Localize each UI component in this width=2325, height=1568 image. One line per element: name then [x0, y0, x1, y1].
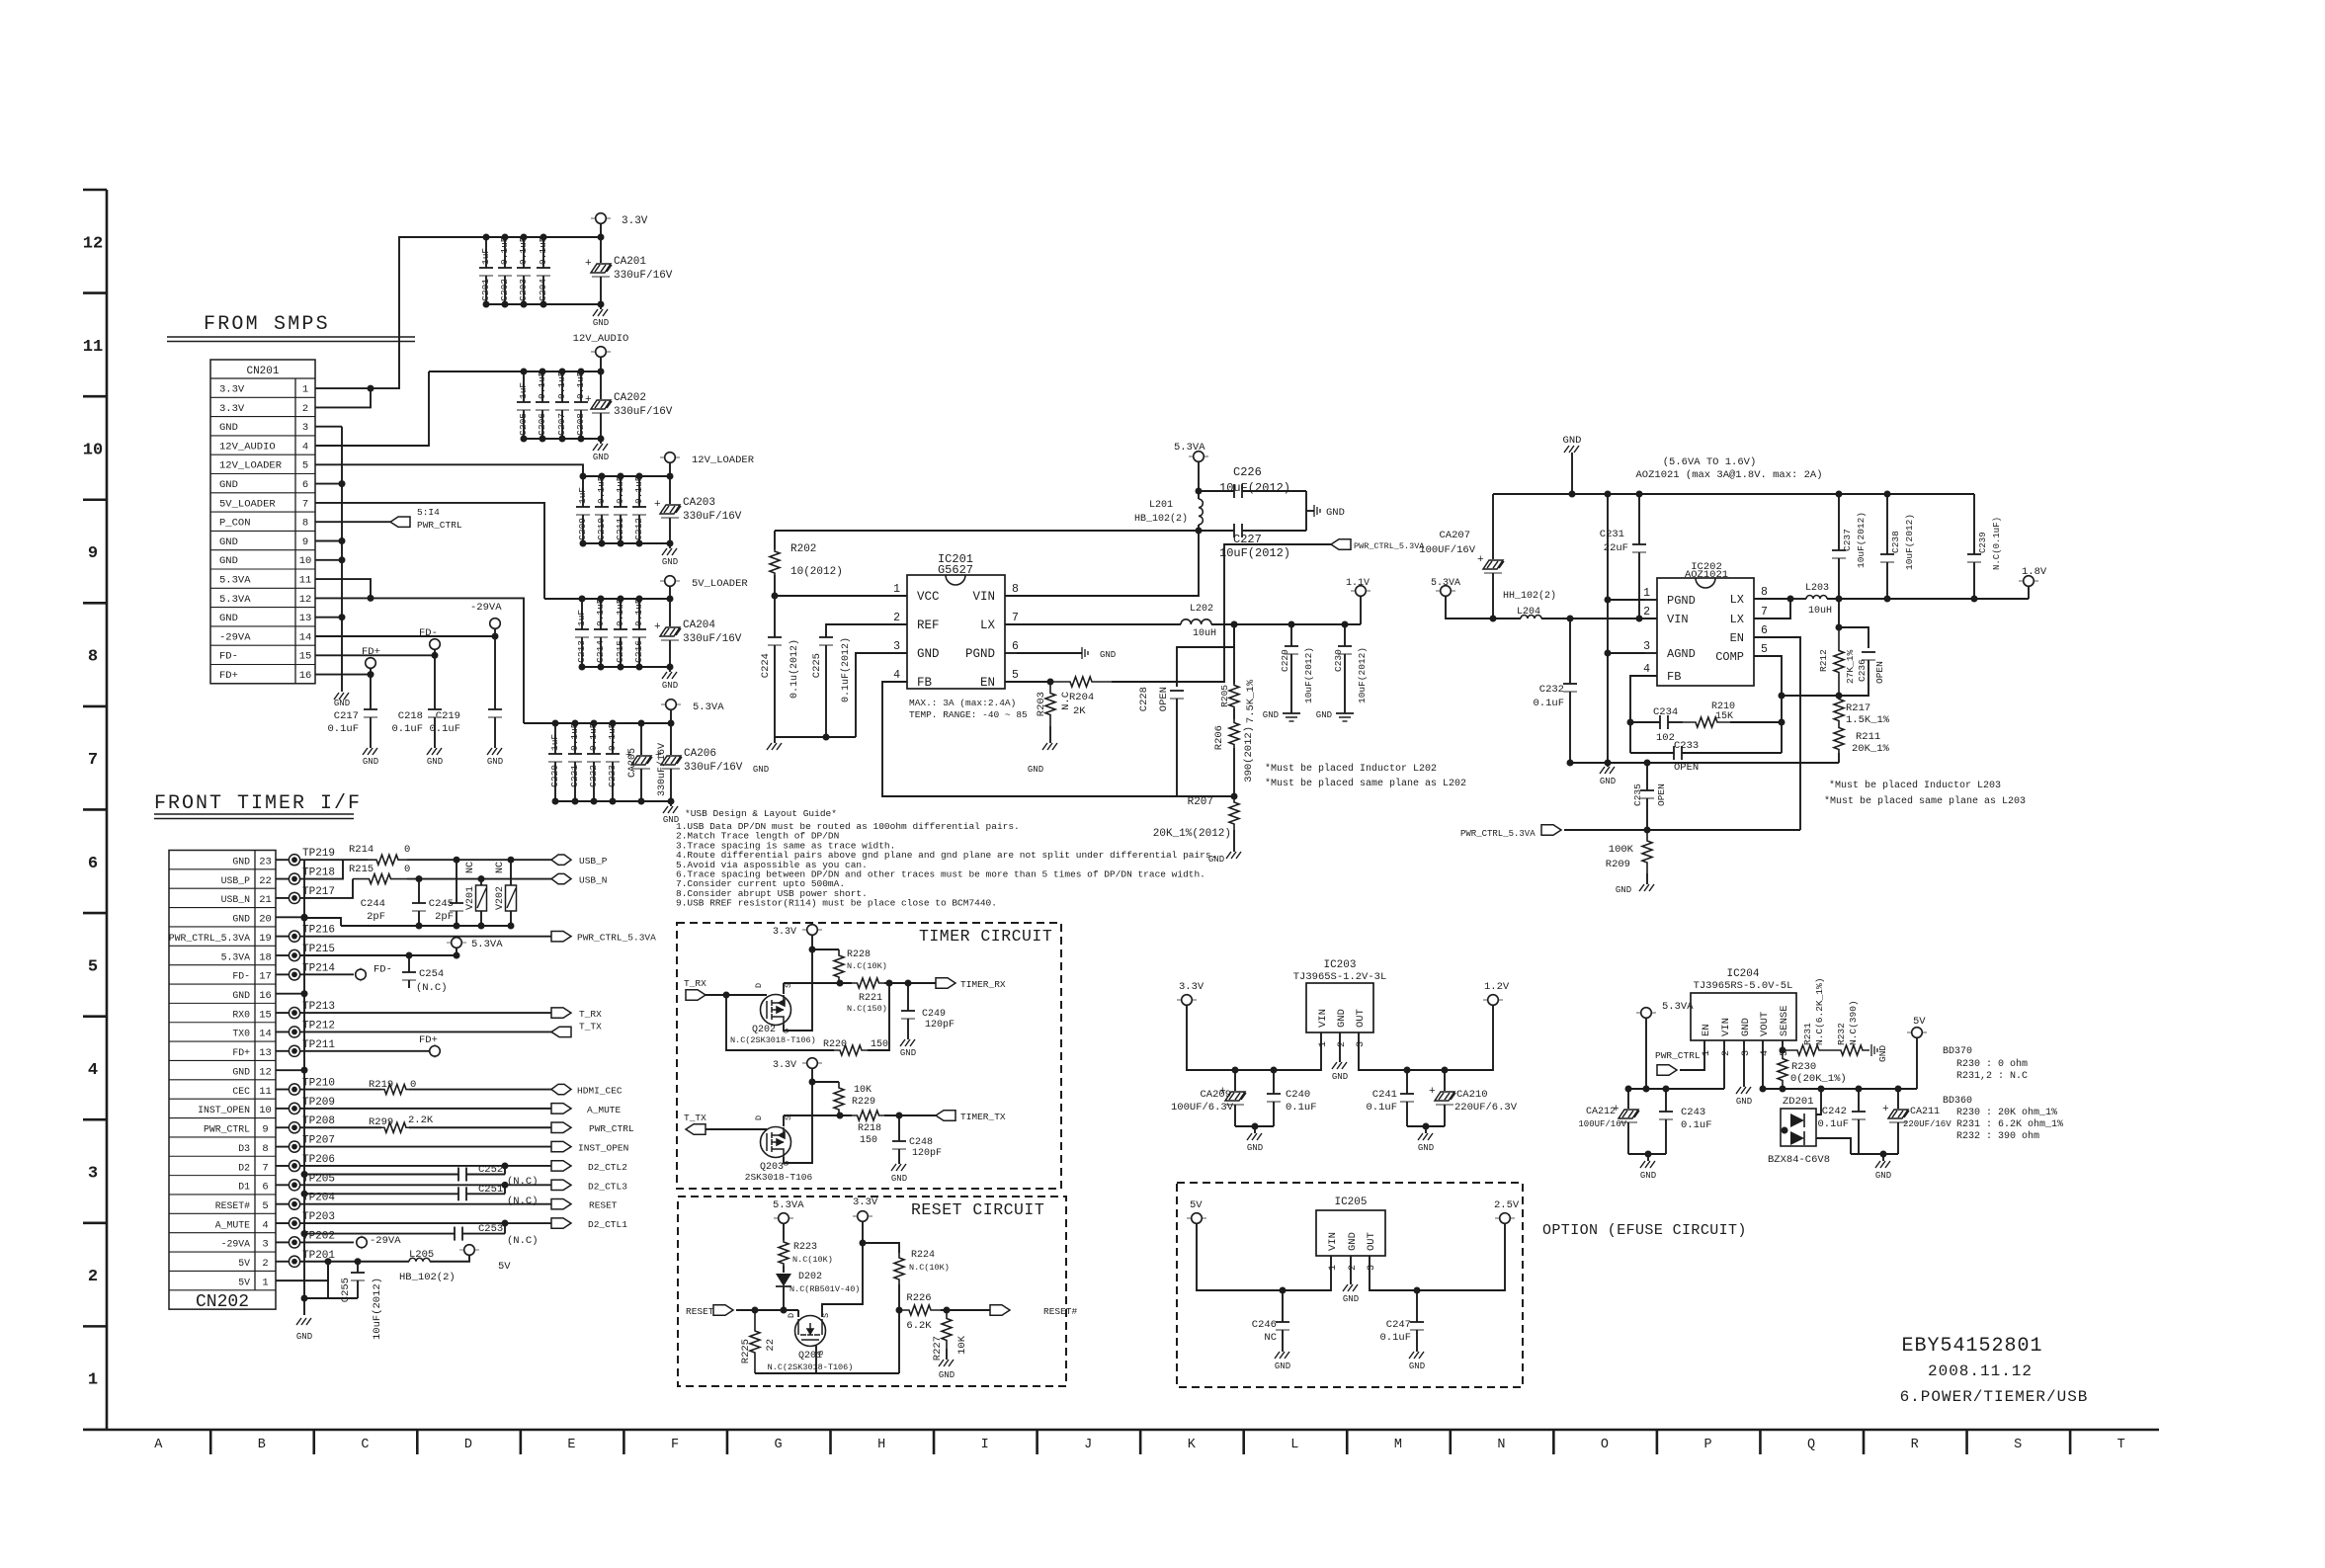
svg-text:5V_LOADER: 5V_LOADER: [219, 498, 276, 510]
svg-text:1uF: 1uF: [549, 734, 560, 751]
svg-text:4: 4: [302, 441, 308, 453]
tag RESET# output: [990, 1305, 1010, 1315]
svg-text:N.C(10K): N.C(10K): [909, 1263, 950, 1273]
svg-text:4: 4: [1760, 1050, 1771, 1056]
svg-text:9.USB RREF resistor(R114) must: 9.USB RREF resistor(R114) must be place …: [676, 898, 997, 909]
svg-text:3: 3: [1367, 1265, 1377, 1271]
testpoint TP213: [276, 1012, 289, 1014]
wire CN202 pin20 GND to trunk: [276, 916, 304, 918]
svg-text:GND: GND: [334, 699, 350, 708]
svg-text:*Must be placed same plane as: *Must be placed same plane as L202: [1265, 778, 1466, 789]
svg-text:TP219: TP219: [302, 848, 335, 860]
svg-text:TP217: TP217: [302, 886, 335, 898]
svg-text:IC204: IC204: [1726, 968, 1759, 980]
wire Q201 gate rail: [755, 1372, 899, 1374]
svg-text:1: 1: [893, 583, 900, 596]
svg-text:FD+: FD+: [232, 1047, 250, 1058]
svg-text:F: F: [671, 1438, 679, 1452]
svg-text:TP210: TP210: [302, 1078, 335, 1090]
wire R219 to HDMI_CEC tag: [409, 1089, 551, 1091]
testpoint TP218: [276, 878, 289, 880]
svg-text:TP213: TP213: [302, 1001, 335, 1013]
svg-text:2: 2: [88, 1268, 98, 1286]
svg-text:GND: GND: [1616, 885, 1631, 895]
svg-text:OPEN: OPEN: [1158, 687, 1170, 711]
svg-text:R215: R215: [349, 864, 374, 875]
svg-text:GND: GND: [1326, 507, 1345, 519]
svg-text:FROM SMPS: FROM SMPS: [204, 313, 330, 336]
wire CN202 pin16 GND to trunk: [276, 993, 304, 995]
wire TP201 row 5V: [300, 1261, 409, 1263]
svg-text:330uF/16V: 330uF/16V: [614, 270, 673, 282]
tag PWR_CTRL 5:I4: [390, 517, 410, 527]
svg-text:OPEN: OPEN: [1656, 784, 1667, 806]
wire TP212 row T_TX: [300, 1031, 551, 1032]
svg-text:TIMER_TX: TIMER_TX: [960, 1112, 1006, 1122]
wire T_TX to Q203 gate: [706, 1128, 767, 1130]
svg-text:0.1uF: 0.1uF: [615, 598, 625, 626]
svg-text:PWR_CTRL_5.3VA: PWR_CTRL_5.3VA: [169, 933, 250, 944]
ground below C246: [1275, 1352, 1289, 1359]
wire VOUT output rail: [1763, 1088, 1917, 1090]
svg-text:N.C(2SK3018-T106): N.C(2SK3018-T106): [768, 1362, 854, 1372]
svg-text:22: 22: [765, 1339, 777, 1352]
svg-text:13: 13: [299, 613, 312, 624]
svg-text:C228: C228: [1138, 687, 1150, 711]
svg-text:PWR_CTRL: PWR_CTRL: [204, 1124, 250, 1135]
svg-text:BD360: BD360: [1943, 1096, 1972, 1107]
svg-text:T_RX: T_RX: [684, 978, 706, 989]
svg-text:6: 6: [1012, 640, 1019, 653]
svg-text:CN201: CN201: [246, 366, 279, 377]
svg-text:14: 14: [299, 631, 312, 643]
connector CN202 table: [169, 851, 276, 1310]
svg-text:D2_CTL3: D2_CTL3: [588, 1181, 627, 1192]
svg-text:C211: C211: [615, 518, 625, 540]
svg-text:TP208: TP208: [302, 1115, 335, 1127]
svg-text:PWR_CTRL_5.3VA: PWR_CTRL_5.3VA: [1460, 829, 1536, 839]
wire TP211 row FD+: [300, 1050, 435, 1052]
svg-text:CA205: CA205: [627, 748, 638, 778]
svg-text:TP211: TP211: [302, 1039, 335, 1051]
ground GND below CN201 bus: [334, 693, 349, 700]
ground below CA202: [600, 439, 602, 444]
terminal 1.2V: [1483, 999, 1488, 1001]
svg-text:C207: C207: [556, 413, 567, 436]
wire L203 output 1.8V line: [1827, 598, 2029, 600]
svg-text:10: 10: [83, 441, 103, 459]
svg-text:A_MUTE: A_MUTE: [587, 1105, 622, 1115]
svg-text:1: 1: [1643, 587, 1650, 600]
resistor R224 N.C(10K): [863, 1243, 899, 1253]
wire IC201 ground rail: [775, 736, 856, 738]
svg-text:0(20K_1%): 0(20K_1%): [1790, 1073, 1847, 1085]
capacitor C246 NC: [1282, 1290, 1284, 1322]
capacitor C238 10uF(2012): [1886, 494, 1888, 554]
svg-text:C245: C245: [429, 898, 454, 910]
svg-text:0.1uF: 0.1uF: [588, 722, 599, 751]
svg-text:C210: C210: [596, 518, 607, 540]
ground below C247: [1409, 1352, 1424, 1359]
svg-text:LX: LX: [980, 619, 996, 632]
svg-text:TIMER_RX: TIMER_RX: [960, 979, 1006, 990]
svg-text:NC: NC: [1264, 1332, 1277, 1344]
svg-text:N.C(0.1uF): N.C(0.1uF): [1992, 517, 2002, 570]
svg-text:LX: LX: [1730, 593, 1744, 607]
svg-text:10uF(2012): 10uF(2012): [1303, 647, 1314, 703]
resistor R227 10K: [942, 1310, 952, 1349]
svg-text:R232 : 390 ohm: R232 : 390 ohm: [1956, 1130, 2039, 1142]
svg-text:18: 18: [259, 951, 272, 963]
testpoint TP203: [276, 1222, 289, 1224]
ground below CA204: [669, 667, 671, 672]
svg-text:FD-: FD-: [232, 971, 250, 982]
ground PGND pin6: [1017, 652, 1082, 654]
wire C242 CA211 ground rail: [1851, 1153, 1898, 1155]
svg-text:GND: GND: [1409, 1362, 1425, 1371]
svg-text:REF: REF: [917, 619, 940, 632]
svg-text:C236: C236: [1857, 659, 1868, 682]
varistor V202 NC: [510, 860, 512, 885]
testpoint TP207: [276, 1146, 289, 1148]
svg-text:NC: NC: [465, 862, 476, 873]
svg-text:C226: C226: [1233, 465, 1262, 479]
svg-text:FB: FB: [1667, 670, 1681, 684]
capacitor C240 0.1uF: [1273, 1070, 1275, 1094]
capacitor C221 0.1uF: [574, 723, 576, 754]
wire R220 loop: [726, 995, 834, 1050]
wire C226/C227 join: [1305, 491, 1307, 531]
wire COMP vertical: [1754, 656, 1782, 753]
svg-text:GND: GND: [1600, 777, 1616, 786]
svg-text:R212: R212: [1818, 649, 1829, 672]
svg-text:2.5V: 2.5V: [1494, 1199, 1520, 1211]
wire TP216 row PWR_CTRL_5.3VA: [300, 936, 551, 938]
capacitor C206 0.1uF: [541, 371, 543, 402]
svg-text:1uF: 1uF: [480, 248, 491, 265]
svg-text:D: D: [787, 1313, 796, 1318]
wire CN201 pin16 FD+: [315, 674, 371, 676]
svg-text:3.3V: 3.3V: [219, 403, 245, 415]
svg-text:5: 5: [262, 1200, 268, 1212]
svg-text:GND: GND: [662, 557, 678, 567]
svg-text:10uH: 10uH: [1193, 628, 1216, 639]
svg-text:6.2K: 6.2K: [906, 1320, 932, 1332]
svg-text:3.3V: 3.3V: [773, 1060, 796, 1071]
svg-text:GND: GND: [753, 765, 769, 775]
svg-text:3.3V: 3.3V: [219, 384, 245, 396]
svg-text:VCC: VCC: [917, 590, 940, 604]
wire OUT to 1.2V: [1359, 1005, 1493, 1070]
svg-text:I: I: [981, 1438, 989, 1452]
svg-text:4: 4: [893, 669, 900, 682]
svg-text:PGND: PGND: [965, 647, 995, 661]
svg-text:0: 0: [404, 844, 410, 856]
regulator IC204 TJ3965RS-5.0V-5L: [1691, 993, 1796, 1040]
svg-text:CA203: CA203: [683, 497, 715, 509]
capacitor C236 OPEN: [1839, 627, 1868, 648]
svg-text:R217: R217: [1846, 702, 1870, 714]
svg-text:5:I4: 5:I4: [417, 507, 440, 518]
svg-text:D3: D3: [238, 1143, 250, 1154]
svg-text:C231: C231: [1600, 529, 1624, 540]
svg-text:100UF/6.3V: 100UF/6.3V: [1171, 1102, 1234, 1114]
svg-text:3: 3: [893, 640, 900, 653]
svg-text:TP212: TP212: [302, 1020, 335, 1032]
capacitor C245 2pF: [456, 860, 457, 903]
svg-text:390(2012): 390(2012): [1243, 726, 1255, 783]
svg-text:0.1uF(2012): 0.1uF(2012): [840, 637, 852, 702]
svg-text:GND: GND: [1563, 435, 1582, 447]
svg-text:2: 2: [1721, 1050, 1732, 1056]
svg-text:C209: C209: [577, 518, 588, 540]
wire FB pin4 feedback line: [882, 682, 1234, 796]
svg-text:N.C(6.2K_1%): N.C(6.2K_1%): [1814, 978, 1825, 1045]
wire 3.3V to VIN: [1187, 1005, 1321, 1070]
svg-text:12: 12: [299, 594, 312, 606]
svg-text:FD+: FD+: [362, 646, 380, 658]
svg-text:3: 3: [88, 1165, 98, 1184]
svg-text:6: 6: [262, 1182, 268, 1194]
dashed box TIMER CIRCUIT: [677, 923, 1061, 1189]
testpoint TP205: [276, 1184, 289, 1186]
capacitor bank C220-C223 top rail: [524, 722, 671, 724]
svg-text:10(2012): 10(2012): [790, 566, 843, 578]
capacitor C209 1uF: [582, 476, 584, 507]
svg-text:C206: C206: [537, 413, 547, 436]
svg-text:2SK3018-T106: 2SK3018-T106: [745, 1172, 813, 1183]
ground below CA206: [670, 801, 672, 806]
testpoint TP215: [276, 954, 289, 956]
svg-text:B: B: [258, 1438, 266, 1452]
svg-text:GND: GND: [1247, 1143, 1263, 1153]
svg-text:5V: 5V: [498, 1261, 511, 1273]
svg-text:C225: C225: [811, 653, 823, 678]
svg-text:6: 6: [1761, 624, 1768, 637]
svg-text:AOZ1021 (max 3A@1.8V. max: 2A): AOZ1021 (max 3A@1.8V. max: 2A): [1635, 469, 1822, 481]
terminal 5.3VA on pin18: [300, 954, 457, 956]
svg-text:5.3VA: 5.3VA: [219, 575, 251, 587]
svg-text:SENSE: SENSE: [1779, 1005, 1790, 1036]
svg-text:TEMP. RANGE: -40 ~ 85: TEMP. RANGE: -40 ~ 85: [909, 709, 1028, 720]
svg-text:9: 9: [262, 1124, 268, 1136]
svg-text:FD-: FD-: [419, 627, 438, 639]
svg-text:2pF: 2pF: [435, 911, 454, 923]
terminal 5.3VA: [661, 703, 666, 705]
svg-text:GND: GND: [487, 757, 503, 767]
svg-text:TP209: TP209: [302, 1097, 335, 1109]
svg-text:15: 15: [299, 651, 312, 663]
dashed box RESET CIRCUIT: [678, 1197, 1066, 1386]
terminal 1.1V: [1360, 596, 1362, 624]
svg-text:C248: C248: [909, 1137, 933, 1148]
svg-text:1uF: 1uF: [577, 487, 588, 504]
svg-text:0.1uF: 0.1uF: [595, 598, 606, 626]
capacitor C203 0.1uF: [523, 237, 525, 268]
svg-text:N.C(10K): N.C(10K): [847, 961, 887, 971]
ground below C219: [487, 748, 502, 755]
svg-text:0.1uF: 0.1uF: [633, 475, 644, 504]
svg-text:PWR_CTRL_5.3VA: PWR_CTRL_5.3VA: [577, 933, 656, 944]
wire R299 to PWR_CTRL tag: [409, 1126, 551, 1128]
resistor R220 150: [834, 1045, 868, 1055]
capacitor CA202 330uF/16V electrolytic: [600, 371, 602, 399]
svg-text:1: 1: [88, 1371, 98, 1390]
svg-text:C247: C247: [1386, 1319, 1411, 1331]
wire TP210 row to R219: [300, 1089, 381, 1091]
svg-text:GND: GND: [219, 422, 238, 434]
svg-text:RESET#: RESET#: [1043, 1306, 1078, 1317]
svg-text:C232: C232: [1539, 684, 1564, 696]
svg-text:3: 3: [302, 422, 308, 434]
resistor R232 N.C(390): [1834, 1045, 1869, 1055]
svg-text:C205: C205: [518, 413, 529, 436]
svg-text:0.1uF: 0.1uF: [596, 475, 607, 504]
svg-text:TP218: TP218: [302, 867, 335, 879]
svg-text:2: 2: [1337, 1041, 1348, 1047]
svg-text:GND: GND: [593, 453, 609, 462]
svg-text:*Must be placed same plane as: *Must be placed same plane as L203: [1824, 795, 2026, 807]
svg-text:CA207: CA207: [1439, 530, 1470, 541]
wire T_RX to Q202 gate: [706, 994, 767, 996]
svg-text:0.1uF: 0.1uF: [633, 598, 644, 626]
svg-text:1uF: 1uF: [518, 382, 529, 399]
terminal 5V output: [1916, 1037, 1918, 1089]
resistor R209 100K: [1642, 830, 1652, 873]
svg-text:C216: C216: [633, 640, 644, 663]
wire TP213 row T_RX: [300, 1012, 551, 1014]
svg-text:10K: 10K: [956, 1335, 968, 1355]
diode D202 N.C(RB501V-40): [783, 1266, 785, 1273]
svg-text:CA204: CA204: [683, 619, 715, 631]
wire IC202 top ground rail: [1493, 493, 1974, 495]
ground GND pin3: [1743, 1040, 1745, 1087]
svg-text:102: 102: [1656, 732, 1675, 744]
svg-text:16: 16: [259, 990, 272, 1002]
svg-text:CN202: CN202: [196, 1292, 249, 1312]
svg-text:N: N: [1497, 1438, 1505, 1452]
svg-text:23: 23: [259, 857, 272, 868]
svg-text:RESET#: RESET#: [215, 1200, 250, 1211]
svg-text:10: 10: [299, 555, 312, 567]
svg-text:R231,2 : N.C: R231,2 : N.C: [1956, 1071, 2028, 1082]
svg-text:5V: 5V: [238, 1277, 250, 1287]
svg-text:L: L: [1290, 1438, 1298, 1452]
capacitor C212 0.1uF: [638, 476, 640, 507]
resistor R230 0(20K_1%): [1778, 1050, 1787, 1089]
svg-text:10K: 10K: [854, 1085, 872, 1096]
capacitor bank C205-C208 top rail: [429, 371, 601, 372]
capacitor C247 0.1uF: [1416, 1290, 1418, 1322]
svg-text:J: J: [1084, 1438, 1092, 1452]
svg-text:2008.11.12: 2008.11.12: [1928, 1362, 2033, 1380]
svg-text:VIN: VIN: [1317, 1009, 1329, 1028]
svg-text:D2_CTL1: D2_CTL1: [588, 1219, 627, 1230]
capacitor C201 1uF: [485, 237, 487, 268]
capacitor C225 0.1uF(2012): [826, 624, 907, 637]
wire LX pins join: [1754, 598, 1790, 600]
capacitor C218 0.1uF: [434, 655, 436, 709]
svg-text:PWR_CTRL: PWR_CTRL: [1655, 1050, 1701, 1061]
svg-text:C244: C244: [361, 898, 385, 910]
svg-text:+: +: [585, 258, 592, 270]
terminal 5V_LOADER: [660, 580, 665, 582]
svg-text:3.3V: 3.3V: [773, 927, 796, 938]
svg-text:17: 17: [259, 971, 272, 983]
svg-text:R229: R229: [852, 1097, 875, 1108]
capacitor C230 10uF(2012): [1344, 624, 1346, 646]
wire CN202 GND trunk: [303, 860, 305, 1315]
svg-text:0.1uF: 0.1uF: [569, 722, 580, 751]
svg-text:C237: C237: [1842, 529, 1853, 551]
terminal 12V_LOADER: [660, 456, 665, 458]
svg-text:BD370: BD370: [1943, 1046, 1972, 1057]
terminal 5.3VA: [1636, 1012, 1641, 1014]
svg-text:R230 : 20K ohm_1%: R230 : 20K ohm_1%: [1956, 1107, 2057, 1118]
svg-text:E: E: [567, 1438, 575, 1452]
svg-text:R227: R227: [932, 1336, 944, 1361]
svg-text:1: 1: [302, 384, 308, 396]
ground below C218: [427, 748, 442, 755]
svg-text:CA202: CA202: [614, 392, 646, 404]
testpoint TP216: [276, 936, 289, 938]
svg-text:6: 6: [302, 479, 308, 491]
svg-text:T_RX: T_RX: [579, 1009, 602, 1020]
svg-text:8: 8: [1012, 583, 1019, 596]
svg-text:20K_1%: 20K_1%: [1852, 743, 1890, 755]
svg-text:10uF(2012): 10uF(2012): [1856, 512, 1867, 568]
capacitor C254 N.C: [406, 952, 413, 959]
tag USB_P: [551, 855, 571, 865]
wire TP208 row to R299: [300, 1126, 381, 1128]
svg-text:GND: GND: [1418, 1143, 1434, 1153]
svg-text:C253: C253: [478, 1223, 503, 1235]
svg-text:HDMI_CEC: HDMI_CEC: [577, 1086, 623, 1097]
resistor R217 1.5K_1%: [1834, 696, 1844, 724]
svg-text:C202: C202: [499, 279, 510, 301]
svg-text:0.1uF: 0.1uF: [538, 236, 548, 265]
svg-text:C214: C214: [595, 640, 606, 663]
wire VIN input rail: [1628, 1088, 1724, 1090]
capacitor C208 0.1uF: [580, 371, 582, 402]
svg-text:GND: GND: [1640, 1171, 1656, 1181]
svg-text:C251: C251: [478, 1184, 503, 1196]
svg-text:5.3VA: 5.3VA: [773, 1199, 804, 1211]
svg-text:R209: R209: [1606, 859, 1630, 870]
wire R212 C236 node: [1838, 599, 1840, 627]
testpoint TP202: [276, 1241, 289, 1243]
svg-text:0.1uF: 0.1uF: [1817, 1118, 1849, 1130]
svg-text:R202: R202: [790, 543, 816, 555]
svg-text:220UF/6.3V: 220UF/6.3V: [1454, 1102, 1518, 1114]
svg-text:R223: R223: [793, 1242, 817, 1253]
svg-text:0.1uF: 0.1uF: [1366, 1102, 1397, 1114]
wire CN201 pin1 3.3V to bank rail: [315, 237, 601, 388]
svg-text:R211: R211: [1856, 731, 1880, 743]
wire OUT to 2.5V: [1370, 1223, 1505, 1290]
svg-text:GND: GND: [1100, 650, 1116, 660]
svg-text:ZD201: ZD201: [1783, 1096, 1814, 1108]
svg-text:13: 13: [259, 1047, 272, 1059]
testpoint TP210: [276, 1089, 289, 1091]
svg-text:20: 20: [259, 914, 272, 926]
wire TP214 row FD-: [300, 973, 354, 975]
svg-text:GND: GND: [593, 318, 609, 328]
svg-text:R232: R232: [1836, 1023, 1847, 1045]
svg-text:HH_102(2): HH_102(2): [1503, 590, 1556, 602]
svg-text:3: 3: [1356, 1041, 1367, 1047]
ground below R203: [1042, 743, 1057, 750]
